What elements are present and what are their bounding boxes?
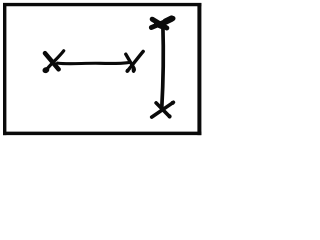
wire (vertical segment): [162, 26, 163, 108]
node C (top X mark of vertical segment): [151, 18, 173, 28]
node B (right X mark of horizontal segment): [126, 51, 144, 72]
node D (bottom X mark of vertical segment): [152, 101, 175, 119]
wire (horizontal segment): [58, 63, 130, 64]
node A (left X mark of horizontal segment): [42, 51, 64, 74]
